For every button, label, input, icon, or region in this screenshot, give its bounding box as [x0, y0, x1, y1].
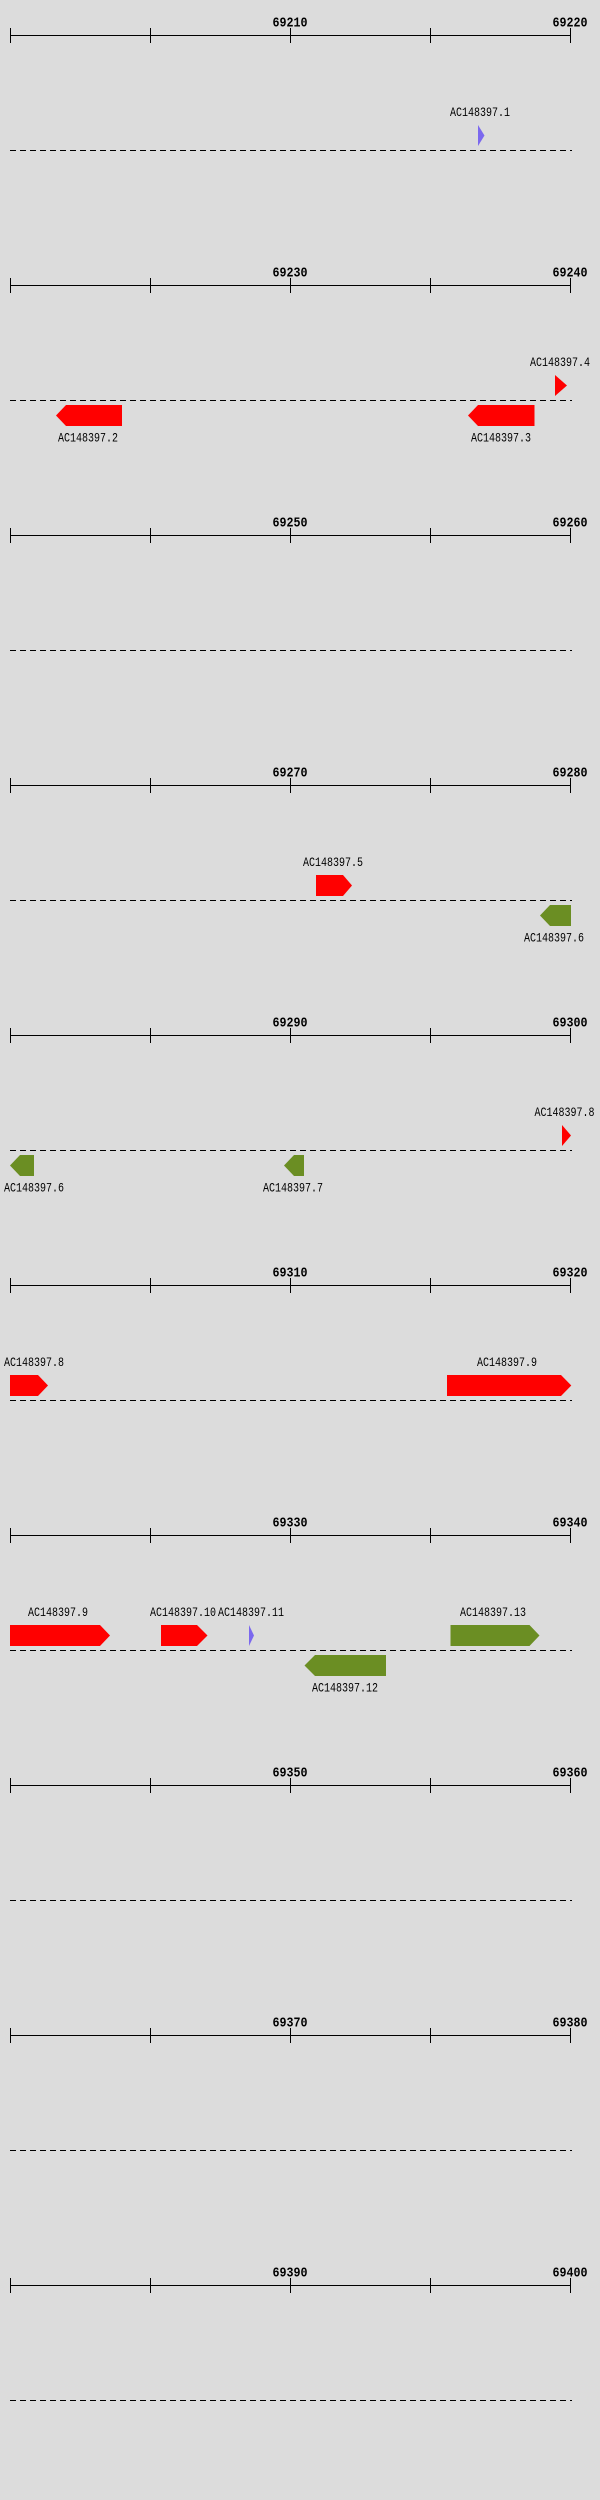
ruler tick x=570 panel 6 — [570, 1278, 571, 1293]
dashed strand midline panel 1 — [10, 150, 572, 152]
ruler tick x=430 panel 2 — [430, 278, 431, 293]
ruler baseline panel 6 — [10, 1285, 571, 1286]
svg-text:AC148397.9: AC148397.9 — [477, 1355, 537, 1370]
feature AC148397.8 continuation (red arrow, + strand) — [10, 1375, 48, 1396]
ruler tick x=290 panel 9 — [290, 2028, 291, 2043]
feature AC148397.3 (red arrow, - strand) — [468, 405, 535, 426]
svg-text:69260: 69260 — [553, 517, 588, 532]
feature AC148397.2 (red arrow, - strand) — [56, 405, 122, 426]
ruler tick x=430 panel 3 — [430, 528, 431, 543]
feature AC148397.6 continuation (green arrow, - strand) — [10, 1155, 34, 1176]
ruler baseline panel 8 — [10, 1785, 571, 1786]
feature AC148397.9 segment (red arrow, + strand) — [447, 1375, 571, 1396]
ruler tick x=10 panel 1 — [10, 28, 11, 43]
ruler tick x=430 panel 9 — [430, 2028, 431, 2043]
svg-text:69380: 69380 — [553, 2017, 588, 2032]
feature AC148397.11 (purple arrowhead, + strand) — [249, 1625, 254, 1646]
svg-text:AC148397.3: AC148397.3 — [471, 431, 531, 446]
ruler tick x=290 panel 2 — [290, 278, 291, 293]
ruler tick x=10 panel 9 — [10, 2028, 11, 2043]
svg-text:69360: 69360 — [553, 1767, 588, 1782]
svg-text:AC148397.12: AC148397.12 — [312, 1681, 378, 1696]
dashed strand midline panel 3 — [10, 650, 572, 652]
ruler baseline panel 4 — [10, 785, 571, 786]
svg-text:AC148397.1: AC148397.1 — [450, 105, 510, 120]
ruler tick x=290 panel 4 — [290, 778, 291, 793]
feature AC148397.9 continuation (red arrow, + strand) — [10, 1625, 110, 1646]
ruler tick x=570 panel 9 — [570, 2028, 571, 2043]
ruler tick x=150 panel 3 — [150, 528, 151, 543]
svg-text:69390: 69390 — [273, 2267, 308, 2282]
svg-text:69290: 69290 — [273, 1017, 308, 1032]
ruler tick x=150 panel 10 — [150, 2278, 151, 2293]
ruler tick x=430 panel 5 — [430, 1028, 431, 1043]
svg-text:AC148397.5: AC148397.5 — [303, 855, 363, 870]
ruler tick x=150 panel 5 — [150, 1028, 151, 1043]
ruler tick x=430 panel 1 — [430, 28, 431, 43]
ruler baseline panel 7 — [10, 1535, 571, 1536]
ruler tick x=570 panel 2 — [570, 278, 571, 293]
ruler tick x=10 panel 2 — [10, 278, 11, 293]
dashed strand midline panel 7 — [10, 1650, 572, 1652]
ruler tick x=10 panel 4 — [10, 778, 11, 793]
ruler tick x=290 panel 1 — [290, 28, 291, 43]
ruler tick x=150 panel 8 — [150, 1778, 151, 1793]
feature AC148397.8 segment (red arrowhead, + strand) — [562, 1125, 571, 1146]
ruler tick x=570 panel 7 — [570, 1528, 571, 1543]
svg-text:AC148397.4: AC148397.4 — [530, 355, 590, 370]
svg-text:69400: 69400 — [553, 2267, 588, 2282]
feature AC148397.12 (green arrow, - strand) — [305, 1655, 387, 1676]
svg-text:69230: 69230 — [273, 267, 308, 282]
dashed strand midline panel 6 — [10, 1400, 572, 1402]
ruler tick x=10 panel 8 — [10, 1778, 11, 1793]
ruler tick x=10 panel 5 — [10, 1028, 11, 1043]
svg-text:69280: 69280 — [553, 767, 588, 782]
ruler tick x=150 panel 6 — [150, 1278, 151, 1293]
dashed strand midline panel 2 — [10, 400, 572, 402]
ruler baseline panel 3 — [10, 535, 571, 536]
ruler tick x=570 panel 5 — [570, 1028, 571, 1043]
ruler tick x=290 panel 8 — [290, 1778, 291, 1793]
feature AC148397.7 (green arrow, - strand) — [284, 1155, 304, 1176]
svg-text:AC148397.9: AC148397.9 — [28, 1605, 88, 1620]
ruler tick x=10 panel 10 — [10, 2278, 11, 2293]
svg-text:69240: 69240 — [553, 267, 588, 282]
dashed strand midline panel 4 — [10, 900, 572, 902]
dashed strand midline panel 8 — [10, 1900, 572, 1902]
ruler tick x=150 panel 7 — [150, 1528, 151, 1543]
svg-text:AC148397.6: AC148397.6 — [4, 1181, 64, 1196]
svg-text:AC148397.8: AC148397.8 — [535, 1105, 595, 1120]
ruler tick x=570 panel 4 — [570, 778, 571, 793]
ruler tick x=10 panel 7 — [10, 1528, 11, 1543]
ruler tick x=430 panel 7 — [430, 1528, 431, 1543]
svg-text:69350: 69350 — [273, 1767, 308, 1782]
ruler tick x=430 panel 4 — [430, 778, 431, 793]
svg-text:AC148397.2: AC148397.2 — [58, 431, 118, 446]
dashed strand midline panel 10 — [10, 2400, 572, 2402]
ruler tick x=150 panel 2 — [150, 278, 151, 293]
ruler tick x=150 panel 4 — [150, 778, 151, 793]
feature AC148397.6 segment (green arrow, - strand) — [540, 905, 571, 926]
ruler tick x=290 panel 6 — [290, 1278, 291, 1293]
svg-text:69210: 69210 — [273, 17, 308, 32]
ruler tick x=290 panel 10 — [290, 2278, 291, 2293]
ruler tick x=150 panel 1 — [150, 28, 151, 43]
svg-text:69320: 69320 — [553, 1267, 588, 1282]
feature AC148397.10 (red arrow, + strand) — [161, 1625, 208, 1646]
ruler tick x=10 panel 6 — [10, 1278, 11, 1293]
feature AC148397.13 (green arrow, + strand) — [451, 1625, 540, 1646]
svg-text:69300: 69300 — [553, 1017, 588, 1032]
ruler tick x=570 panel 1 — [570, 28, 571, 43]
svg-text:69330: 69330 — [273, 1517, 308, 1532]
svg-text:69340: 69340 — [553, 1517, 588, 1532]
ruler tick x=10 panel 3 — [10, 528, 11, 543]
svg-text:AC148397.13: AC148397.13 — [460, 1605, 526, 1620]
ruler tick x=290 panel 7 — [290, 1528, 291, 1543]
ruler baseline panel 9 — [10, 2035, 571, 2036]
svg-text:AC148397.8: AC148397.8 — [4, 1355, 64, 1370]
ruler tick x=430 panel 6 — [430, 1278, 431, 1293]
ruler tick x=290 panel 3 — [290, 528, 291, 543]
svg-text:AC148397.11: AC148397.11 — [218, 1605, 284, 1620]
ruler tick x=290 panel 5 — [290, 1028, 291, 1043]
ruler baseline panel 5 — [10, 1035, 571, 1036]
ruler tick x=570 panel 10 — [570, 2278, 571, 2293]
feature AC148397.5 (red arrow, + strand) — [316, 875, 352, 896]
svg-text:69370: 69370 — [273, 2017, 308, 2032]
feature AC148397.4 (red arrowhead, + strand) — [555, 375, 567, 396]
svg-text:69220: 69220 — [553, 17, 588, 32]
dashed strand midline panel 9 — [10, 2150, 572, 2152]
svg-text:69310: 69310 — [273, 1267, 308, 1282]
ruler tick x=150 panel 9 — [150, 2028, 151, 2043]
dashed strand midline panel 5 — [10, 1150, 572, 1152]
ruler tick x=430 panel 8 — [430, 1778, 431, 1793]
svg-text:69250: 69250 — [273, 517, 308, 532]
ruler baseline panel 1 — [10, 35, 571, 36]
ruler baseline panel 2 — [10, 285, 571, 286]
svg-text:69270: 69270 — [273, 767, 308, 782]
svg-text:AC148397.10: AC148397.10 — [150, 1605, 216, 1620]
svg-text:AC148397.7: AC148397.7 — [263, 1181, 323, 1196]
ruler tick x=570 panel 3 — [570, 528, 571, 543]
feature AC148397.1 (purple arrowhead, + strand) — [478, 125, 485, 146]
ruler baseline panel 10 — [10, 2285, 571, 2286]
ruler tick x=430 panel 10 — [430, 2278, 431, 2293]
ruler tick x=570 panel 8 — [570, 1778, 571, 1793]
svg-text:AC148397.6: AC148397.6 — [524, 931, 584, 946]
